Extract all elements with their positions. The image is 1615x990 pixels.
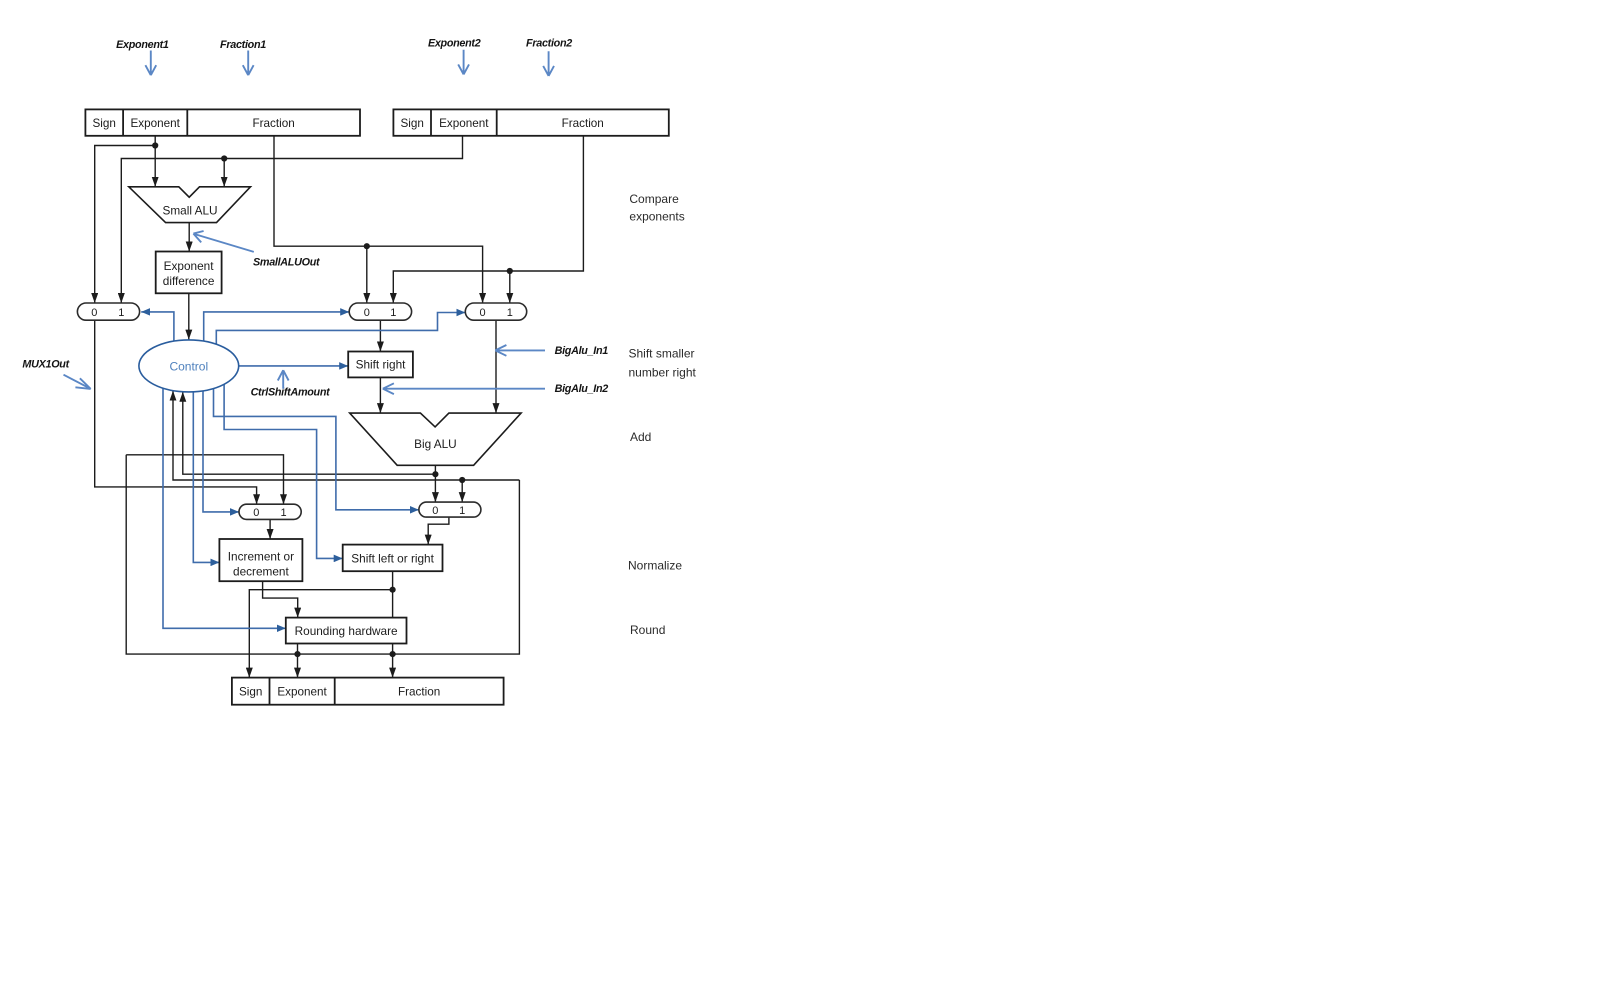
svg-text:Fraction1: Fraction1 <box>220 39 266 51</box>
wire Big ALU output to MUX5 input 0 <box>434 465 436 502</box>
wire MUX4 output to Increment or decrement <box>269 519 271 539</box>
svg-text:Fraction2: Fraction2 <box>526 38 572 50</box>
svg-text:1: 1 <box>118 307 124 319</box>
junction Fraction1 branch <box>364 243 370 249</box>
svg-text:CtrlShiftAmount: CtrlShiftAmount <box>251 387 331 399</box>
wire Exponent2 from register B to MUX1 input 1 <box>121 136 462 303</box>
svg-text:SmallALUOut: SmallALUOut <box>253 257 320 269</box>
svg-text:0: 0 <box>432 505 438 517</box>
label SmallALUOut <box>193 231 320 269</box>
svg-text:Fraction: Fraction <box>252 117 294 130</box>
wire control to MUX5 select <box>214 389 419 510</box>
svg-text:Exponent: Exponent <box>439 117 489 130</box>
svg-text:1: 1 <box>281 507 287 519</box>
junction rounding fraction output <box>390 651 396 657</box>
wire MUX2 output to Shift right <box>379 320 381 351</box>
node label Add <box>630 430 651 444</box>
wire Exponent difference to Control <box>188 293 190 339</box>
wire Exponent2 to Small ALU <box>223 159 225 187</box>
wire feedback to MUX5 input 1 <box>461 480 463 502</box>
wire Exponent1 to MUX1 input 0 <box>95 146 156 304</box>
box Increment or decrement <box>219 539 302 581</box>
junction Big ALU output <box>432 471 438 477</box>
svg-text:difference: difference <box>163 274 215 288</box>
svg-text:Control: Control <box>169 359 208 373</box>
svg-text:Fraction: Fraction <box>398 686 440 699</box>
svg-text:Exponent2: Exponent2 <box>428 38 481 50</box>
label MUX1Out <box>22 359 90 389</box>
node label Compare exponents <box>629 192 684 224</box>
wire Small ALU output to Exponent difference <box>188 223 190 252</box>
svg-text:MUX1Out: MUX1Out <box>22 359 69 371</box>
svg-text:Round: Round <box>630 623 665 637</box>
svg-text:Exponent: Exponent <box>131 117 181 130</box>
mux M4 <box>239 504 301 519</box>
svg-text:0: 0 <box>253 507 259 519</box>
svg-text:Exponent: Exponent <box>277 686 327 699</box>
node label Normalize <box>628 559 682 573</box>
svg-text:Shift left or right: Shift left or right <box>351 551 434 565</box>
wire control to MUX3 select <box>216 313 465 345</box>
svg-text:Increment or: Increment or <box>228 549 294 563</box>
op Big ALU <box>350 413 521 465</box>
svg-text:1: 1 <box>507 307 513 319</box>
wire Rounding hardware exponent output <box>297 644 299 678</box>
svg-text:Shift right: Shift right <box>356 358 407 372</box>
label BigAlu_In2 <box>383 383 608 395</box>
wire sign to result register <box>249 590 392 678</box>
label Exponent1 <box>116 39 169 75</box>
box Shift right <box>348 352 413 378</box>
junction Exponent2 branch <box>221 155 227 161</box>
svg-text:decrement: decrement <box>233 564 289 578</box>
svg-text:Big ALU: Big ALU <box>414 437 457 451</box>
svg-text:Normalize: Normalize <box>628 559 682 573</box>
mux M5 <box>419 502 481 517</box>
svg-text:1: 1 <box>459 505 465 517</box>
svg-text:exponents: exponents <box>629 209 684 223</box>
label BigAlu_In1 <box>495 345 608 357</box>
box Shift left or right <box>343 545 443 572</box>
wire Exponent1 from register A to Small ALU <box>154 136 156 187</box>
label CtrlShiftAmount <box>251 370 331 398</box>
junction Exponent1 branch <box>152 142 158 148</box>
junction rounding exponent output <box>294 651 300 657</box>
register R3 result Sign Exponent Fraction <box>232 678 504 705</box>
wire MUX5 output to Shift left or right <box>428 517 449 545</box>
box Rounding hardware <box>286 618 407 644</box>
svg-text:Shift smaller: Shift smaller <box>629 347 695 361</box>
wire control to MUX2 select <box>204 312 350 341</box>
wire control to Increment select <box>193 392 219 563</box>
wire feedback line to Control <box>173 391 519 480</box>
svg-text:0: 0 <box>480 307 486 319</box>
wire Shift left or right output to Rounding hardware <box>392 571 394 617</box>
label Exponent2 <box>428 38 481 75</box>
mux M2 <box>349 303 411 320</box>
svg-text:1: 1 <box>390 307 396 319</box>
wire control to MUX1 select <box>141 312 174 341</box>
wire Shift right output to Big ALU <box>379 377 381 413</box>
wire Increment output to Rounding hardware <box>263 581 298 617</box>
wire Fraction2 to MUX2 input 1 <box>393 136 583 303</box>
mux M1 <box>77 303 139 320</box>
svg-text:Fraction: Fraction <box>562 117 604 130</box>
svg-text:Sign: Sign <box>239 686 262 699</box>
junction Fraction2 branch <box>507 268 513 274</box>
node label Shift smaller number right <box>629 347 697 380</box>
wire control to Shift right select <box>239 365 349 367</box>
svg-text:Exponent: Exponent <box>164 259 215 273</box>
svg-text:Add: Add <box>630 430 651 444</box>
wire Big ALU result to Control <box>183 392 436 474</box>
label Fraction1 <box>220 39 266 75</box>
label Fraction2 <box>526 38 572 76</box>
wire MUX1 output to MUX4 input 0 <box>95 320 257 504</box>
node label Round <box>630 623 665 637</box>
svg-text:Sign: Sign <box>400 117 423 130</box>
svg-text:number right: number right <box>629 366 697 380</box>
wire Fraction1 to MUX3 input 0 <box>274 136 483 303</box>
register R2 Sign Exponent Fraction <box>393 109 668 135</box>
svg-text:Sign: Sign <box>92 117 115 130</box>
wire feedback top to MUX4 input 1 <box>126 455 283 504</box>
junction shift output <box>390 587 396 593</box>
wire Fraction2 to MUX3 input 1 <box>509 271 511 303</box>
control unit ellipse <box>139 340 239 392</box>
svg-text:Small ALU: Small ALU <box>162 204 217 218</box>
wire control to MUX4 select <box>203 392 239 512</box>
wire Rounding hardware fraction output <box>392 644 394 678</box>
box Exponent difference <box>156 252 222 294</box>
wire control to Rounding hardware select <box>163 388 286 628</box>
wire Fraction1 to MUX2 input 0 <box>366 246 368 303</box>
svg-text:Compare: Compare <box>629 192 679 206</box>
svg-text:BigAlu_In2: BigAlu_In2 <box>555 383 609 395</box>
svg-text:0: 0 <box>91 307 97 319</box>
svg-text:Rounding hardware: Rounding hardware <box>295 624 398 638</box>
op Small ALU <box>129 187 251 223</box>
register R1 Sign Exponent Fraction <box>85 109 360 135</box>
svg-text:BigAlu_In1: BigAlu_In1 <box>555 345 609 357</box>
svg-text:0: 0 <box>364 307 370 319</box>
mux M3 <box>465 303 526 320</box>
wire MUX3 output to Big ALU <box>495 320 497 413</box>
junction feedback to MUX5 <box>459 477 465 483</box>
svg-text:Exponent1: Exponent1 <box>116 39 169 51</box>
wire control to Shift left or right select <box>224 384 343 558</box>
wire feedback loop rectangle <box>126 455 519 654</box>
